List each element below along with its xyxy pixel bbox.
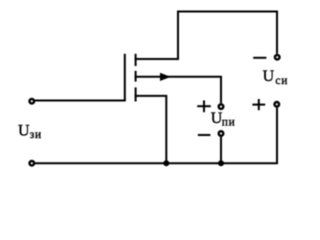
svg-text:си: си <box>275 75 288 87</box>
svg-text:пи: пи <box>222 117 236 129</box>
wire: drain lead <box>135 58 179 60</box>
node: Uпи minus terminal <box>219 131 224 136</box>
node: input terminal upper (gate) <box>30 99 35 104</box>
transistor VT1 substrate arrow <box>160 73 171 81</box>
wire: substrate lead to Uпи plus terminal <box>135 77 221 103</box>
wire: bottom rail <box>32 108 277 164</box>
wire: source lead down to bottom rail <box>135 96 167 163</box>
polarity plus of Uпи <box>197 105 211 107</box>
transistor VT1 substrate channel bar <box>135 71 137 82</box>
wire: gate lead to left input terminal <box>32 100 126 102</box>
wire: Uпи minus terminal down to bottom rail <box>220 137 222 165</box>
svg-text:U: U <box>263 68 275 85</box>
junction: source riser on bottom rail <box>163 160 169 166</box>
svg-text:U: U <box>18 122 30 139</box>
polarity minus of Uпи <box>198 134 211 136</box>
node: Uси plus terminal <box>275 102 280 107</box>
wire: top rail from drain riser to right branch <box>178 12 277 60</box>
node: input terminal lower <box>30 161 35 166</box>
node: Uпи plus terminal <box>219 104 224 109</box>
node: Uси minus terminal <box>275 55 280 60</box>
transistor VT1 drain channel bar <box>135 54 137 66</box>
polarity plus of Uси <box>252 104 265 106</box>
junction: Uпи branch on bottom rail <box>218 160 224 166</box>
svg-text:зи: зи <box>30 129 42 141</box>
transistor VT1 gate electrode <box>124 54 126 101</box>
polarity minus of Uси <box>253 57 266 59</box>
transistor VT1 source channel bar <box>135 87 137 101</box>
